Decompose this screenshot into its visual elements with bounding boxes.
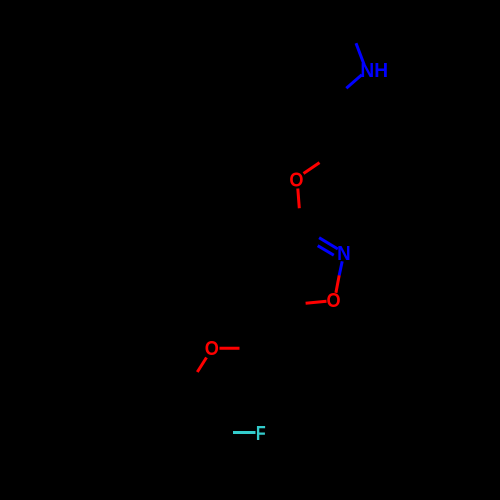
node N isoxazole label [337, 242, 351, 265]
wire: bond O-C5 isoxazole, red half [306, 301, 327, 303]
wire: bond C5(pyrrolidine)-N1, blue half [356, 43, 364, 65]
svg-text:O: O [326, 289, 340, 312]
wire: bond N1-C2(pyrrolidine), blue half [346, 75, 362, 89]
node N1: pyrrolidine NH label [360, 59, 388, 82]
svg-text:F: F [256, 421, 266, 444]
node O ether top label [289, 169, 303, 192]
wire: bond O(ether)-CH2 up-right, red half [304, 163, 320, 174]
svg-text:NH: NH [360, 59, 388, 82]
node F label [256, 421, 266, 444]
wire: double bond C3=N inner line, blue half [318, 246, 334, 256]
wire: double bond C3=N main line, blue half [319, 238, 338, 249]
wire: bond C(aryl)-F, teal half [233, 431, 256, 434]
wire: bond O(ether2)-CH2 right, red half [220, 347, 240, 350]
wire: bond N-O isoxazole, red half [336, 275, 339, 292]
wire: bond O(ether2)-C(aryl) down-left, red half [197, 358, 206, 373]
wire: bond O(ether)-C3 down, red half [298, 189, 300, 209]
node O isoxazole label [326, 289, 340, 312]
svg-text:N: N [337, 242, 351, 265]
svg-text:O: O [289, 169, 303, 192]
node O ether bottom label [205, 337, 219, 360]
wire: bond N-O isoxazole, blue half [339, 261, 342, 275]
svg-text:O: O [205, 337, 219, 360]
